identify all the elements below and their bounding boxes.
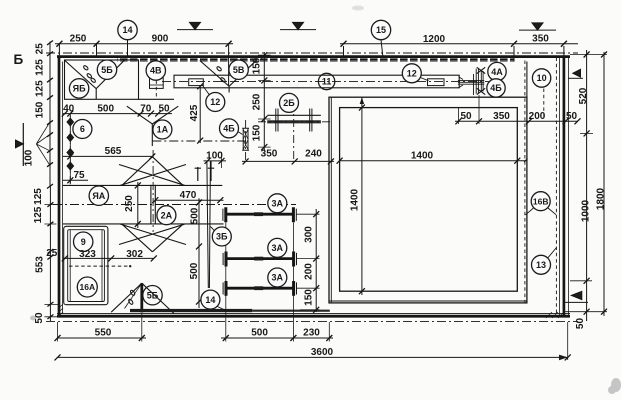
svg-text:250: 250	[70, 34, 87, 45]
dim 323-302	[63, 257, 154, 259]
right tick crosslines	[565, 55, 607, 312]
ticks row 40	[62, 111, 161, 117]
svg-text:70: 70	[140, 103, 152, 114]
svg-text:2А: 2А	[161, 210, 173, 220]
svg-text:550: 550	[95, 328, 112, 339]
level mark 2	[280, 29, 316, 31]
beam 3A no.3 flanges	[226, 281, 294, 296]
duct YaA bottom edge	[63, 223, 224, 225]
svg-text:25: 25	[46, 248, 58, 259]
callout 12 left	[206, 93, 225, 112]
callout 3A no.3	[268, 268, 287, 287]
section marker right top	[573, 69, 581, 77]
svg-text:14: 14	[122, 25, 132, 35]
left chain ticks upper	[47, 41, 53, 189]
box 9-16A inner	[68, 230, 105, 302]
callout 2B	[280, 93, 299, 112]
svg-text:520: 520	[578, 87, 589, 104]
svg-text:50: 50	[575, 318, 586, 330]
svg-text:50: 50	[158, 103, 170, 114]
dashed line 302	[69, 265, 129, 267]
hatch bottom-left corner	[58, 304, 63, 317]
brace 1A V	[127, 106, 179, 146]
svg-text:200: 200	[304, 263, 315, 280]
dim 1400 horizontal	[340, 160, 527, 162]
dim 500-500 vertical	[198, 198, 200, 308]
dim 250 duct vertical	[137, 182, 139, 228]
strut 4B verticals with X lacing	[242, 128, 249, 150]
svg-text:1200: 1200	[423, 34, 446, 45]
wall bottom inner line	[57, 313, 570, 315]
scan smudge bottom 1	[30, 316, 36, 321]
svg-text:150: 150	[304, 289, 315, 306]
component 2B end plates	[276, 109, 312, 132]
scan smudge top	[352, 6, 364, 11]
callout 2A	[157, 206, 176, 225]
right wall dashed line A	[524, 61, 526, 304]
section marker right bottom	[571, 291, 582, 299]
level mark 1	[177, 29, 213, 31]
dashed leader under circle 10	[543, 89, 545, 118]
svg-text:5Б: 5Б	[101, 65, 113, 75]
right wall outer thin	[568, 58, 570, 317]
big square inner	[340, 108, 518, 292]
dim 470	[155, 199, 223, 201]
dim 350-240	[242, 160, 334, 162]
svg-text:1400: 1400	[349, 188, 360, 211]
left chain ticks lower	[47, 202, 53, 319]
dim 500-230 bottom	[221, 337, 333, 339]
svg-text:1800: 1800	[595, 187, 606, 210]
right dim 1800 line	[603, 52, 605, 316]
svg-text:10: 10	[537, 73, 547, 83]
callout 10	[532, 69, 550, 87]
leader circle 15 top	[381, 40, 383, 58]
svg-text:470: 470	[180, 190, 197, 201]
svg-text:5В: 5В	[233, 65, 245, 75]
component 4V dashed axis	[155, 62, 157, 100]
callout YaA	[89, 186, 108, 205]
callout 9	[74, 232, 93, 251]
level mark 3	[519, 29, 556, 31]
callout 3A no.2	[268, 238, 287, 257]
thin diagonal on 5B	[125, 283, 142, 308]
slot plate left on beam 11	[189, 79, 204, 86]
post 2A axis dash-dot	[152, 150, 154, 232]
wall top thick	[57, 55, 570, 58]
svg-text:150: 150	[252, 124, 263, 141]
bolts column line	[69, 114, 71, 183]
big square outer	[329, 97, 527, 303]
wedge post 3B	[207, 161, 211, 288]
svg-text:75: 75	[73, 170, 85, 181]
callout 15	[371, 20, 390, 39]
svg-text:Б: Б	[14, 52, 24, 67]
left chain line lower	[49, 186, 51, 321]
slot plate right on beam 11	[428, 79, 445, 86]
dim 1400 vertical	[361, 98, 363, 296]
component 4V plate	[150, 77, 164, 88]
top dim line 1200-350	[340, 43, 578, 45]
svg-text:1400: 1400	[411, 151, 434, 162]
svg-text:200: 200	[529, 111, 546, 122]
anchor dashed tick	[473, 74, 475, 95]
box 9-16A inner verticals	[70, 230, 102, 302]
svg-text:50: 50	[566, 111, 578, 122]
section marker left: line	[22, 123, 24, 166]
anchor plate verticals	[476, 69, 483, 94]
svg-text:1А: 1А	[157, 125, 169, 135]
callout YaB	[69, 79, 88, 98]
right wall thin line C	[559, 58, 561, 317]
big square outer left double line	[330, 97, 332, 303]
callout 16V	[531, 192, 550, 211]
svg-text:40: 40	[63, 103, 75, 114]
callout 6	[73, 120, 92, 139]
dim 565	[63, 155, 153, 157]
svg-text:230: 230	[303, 328, 320, 339]
callout 14 top	[118, 20, 137, 39]
bolt mark 3	[67, 146, 74, 159]
svg-text:240: 240	[305, 149, 322, 160]
duct YaA top edge	[63, 184, 223, 186]
svg-text:425: 425	[189, 104, 200, 121]
svg-text:12: 12	[407, 69, 417, 79]
svg-text:350: 350	[532, 33, 549, 44]
svg-text:553: 553	[35, 256, 46, 273]
upper butterfly brace 2A	[119, 157, 186, 186]
ovals 5B bottom	[130, 290, 136, 296]
callout 12 right	[402, 64, 421, 83]
top dim extension lines	[59, 44, 228, 86]
svg-text:350: 350	[261, 149, 278, 160]
anchor bolt lines at beam end	[458, 80, 484, 84]
svg-text:13: 13	[536, 260, 546, 270]
beam 3A no.2 flanges	[226, 252, 294, 267]
right wall thick	[563, 55, 566, 317]
svg-text:3А: 3А	[272, 243, 284, 253]
svg-text:125: 125	[35, 80, 46, 97]
dim 100 small	[204, 160, 227, 162]
wall bottom thick	[57, 315, 570, 318]
callout 13	[532, 255, 551, 274]
dim 425 vertical	[199, 86, 201, 143]
svg-text:3Б: 3Б	[216, 232, 228, 242]
wall left inner face	[62, 62, 64, 314]
dim 550	[58, 337, 147, 339]
extensions 1200-350	[344, 46, 564, 62]
right wall thin line above square	[526, 62, 528, 98]
beam 11 body	[174, 75, 459, 88]
svg-text:125: 125	[35, 59, 46, 76]
svg-text:3А: 3А	[272, 199, 284, 209]
svg-text:900: 900	[152, 33, 169, 44]
strut 4B axis dash-dot	[245, 120, 247, 162]
svg-text:150: 150	[252, 57, 263, 74]
post 2A	[151, 185, 155, 224]
callout 4V	[146, 61, 165, 80]
callout 3B	[212, 227, 231, 246]
svg-text:4Б: 4Б	[223, 124, 235, 134]
svg-text:11: 11	[322, 77, 332, 87]
svg-text:100: 100	[206, 151, 223, 162]
dim chain 300-200-150	[315, 209, 317, 312]
top dim line 250-900	[55, 43, 233, 45]
svg-text:5Б: 5Б	[147, 290, 159, 300]
svg-text:6: 6	[80, 124, 85, 134]
svg-text:4Б: 4Б	[490, 83, 502, 93]
svg-text:9: 9	[81, 237, 86, 247]
mast 5B bottom thick	[140, 283, 143, 312]
beam 3A no.1 flanges	[226, 207, 294, 222]
left chain line upper	[49, 42, 51, 187]
callout 4A	[488, 62, 506, 80]
callout 4B left	[220, 119, 239, 138]
svg-text:125: 125	[33, 188, 44, 205]
svg-text:100: 100	[24, 149, 35, 166]
callout 5B top	[97, 60, 116, 79]
wall left thick	[58, 55, 61, 317]
scan smudge right edge 2	[611, 378, 621, 392]
svg-text:150: 150	[35, 101, 46, 118]
dim 75	[63, 176, 88, 184]
leader circle 14 bottom	[218, 307, 227, 311]
svg-text:16В: 16В	[533, 196, 549, 206]
top dim ticks	[56, 41, 231, 47]
leader circle 12 left	[203, 86, 210, 95]
svg-text:ЯА: ЯА	[92, 191, 105, 201]
beam 3A no.3 web	[226, 287, 294, 290]
svg-text:565: 565	[105, 146, 122, 157]
callout 3A no.1	[268, 194, 287, 213]
svg-text:250: 250	[124, 195, 135, 212]
leader circle 3B	[210, 227, 214, 231]
floor line of top bay	[139, 98, 175, 100]
svg-text:500: 500	[190, 207, 201, 224]
svg-text:3600: 3600	[311, 347, 334, 358]
svg-text:250: 250	[252, 93, 263, 110]
fan leader lines	[36, 123, 49, 165]
bolt mark 4	[67, 160, 74, 173]
lower butterfly brace 2A	[119, 224, 186, 252]
svg-text:4А: 4А	[491, 67, 503, 77]
svg-text:323: 323	[79, 249, 96, 260]
leader circle 4B left	[238, 132, 243, 135]
tick crosslines lower chain	[44, 205, 58, 317]
svg-text:4В: 4В	[150, 66, 162, 76]
dim row 40-500-70-50 line	[63, 113, 172, 115]
component 2B axis dash-dot vertical	[293, 103, 295, 162]
hatched strip under top wall	[117, 58, 515, 61]
svg-text:500: 500	[251, 328, 268, 339]
svg-text:3А: 3А	[272, 273, 284, 283]
anchor x-mark bottom	[477, 88, 485, 94]
dash-dot link 1A to 4B strut	[152, 140, 245, 142]
brace ovals	[83, 65, 89, 71]
callout 14 bottom	[201, 290, 220, 309]
hatch bottom-right corner	[546, 312, 564, 318]
wall centerline bottom (dash-dot)	[46, 321, 578, 323]
svg-text:1000: 1000	[581, 199, 592, 222]
brace 5V ovals	[216, 66, 222, 72]
dim 150-250-150 chain	[263, 52, 265, 150]
ticks 1200-350	[341, 41, 567, 47]
svg-text:300: 300	[304, 226, 315, 243]
jack posts under dim 100	[195, 162, 215, 182]
svg-text:15: 15	[376, 25, 386, 35]
beam 3A no.1 web	[226, 213, 294, 216]
leaders circle 16V	[526, 208, 557, 215]
beam 11 centerline dash-dot	[162, 81, 492, 83]
callout 16A	[77, 277, 97, 297]
triangle brace 5B bottom	[111, 283, 174, 313]
floor rail dark bar	[130, 309, 252, 312]
svg-text:500: 500	[189, 262, 200, 279]
svg-text:302: 302	[126, 249, 143, 260]
leader circle 13	[548, 248, 557, 258]
component 2B channel lines	[267, 114, 321, 116]
big square outer bottom double line	[329, 300, 527, 302]
svg-text:500: 500	[97, 103, 114, 114]
svg-text:2Б: 2Б	[283, 98, 295, 108]
bolt mark 1	[67, 116, 74, 129]
wall centerline top (dash-dot)	[46, 52, 578, 54]
anchor x-mark top	[477, 67, 485, 73]
svg-text:125: 125	[33, 206, 44, 223]
duct box YaB top-left	[65, 60, 139, 99]
right chain 520-1000-50	[586, 50, 588, 321]
svg-text:16А: 16А	[80, 282, 96, 292]
bolt mark 2	[67, 131, 74, 144]
leader circle 12 right	[421, 78, 429, 81]
brace 5V V	[200, 60, 257, 93]
callout 11	[318, 73, 334, 89]
callout 5B bottom	[143, 286, 162, 305]
brace 5B top-left V	[65, 59, 126, 100]
beam 3A no.2 web	[226, 257, 294, 260]
duct YaA centerline dash-dot	[53, 204, 296, 206]
callout 1A	[153, 120, 172, 139]
callout 4B right	[487, 79, 505, 97]
leader circle 14 top	[127, 40, 129, 56]
svg-text:12: 12	[210, 97, 220, 107]
right wall dashed line B	[555, 58, 557, 317]
svg-text:ЯБ: ЯБ	[73, 84, 86, 94]
scan smudge right edge 1	[608, 386, 616, 394]
svg-text:50: 50	[460, 111, 472, 122]
box 9-16A outer	[64, 226, 108, 304]
callout 5V	[229, 60, 248, 79]
dim 3600	[58, 356, 568, 358]
svg-text:25: 25	[35, 43, 46, 55]
section marker left: arrow	[16, 140, 24, 148]
svg-text:350: 350	[493, 111, 510, 122]
svg-text:14: 14	[205, 295, 215, 305]
dim row 50-350-200-50	[455, 120, 578, 122]
